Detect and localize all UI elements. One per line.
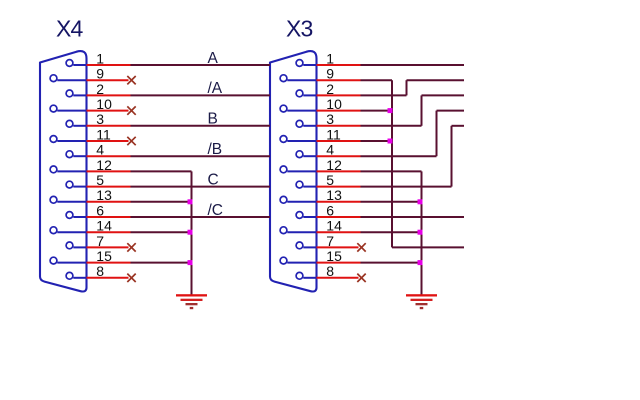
X3 pin 3 red stub wire <box>317 125 361 127</box>
net B: wire from X3 pin 3 to vertical jog <box>361 125 422 127</box>
X3 net 9/10/11: wire from pin 9 to vertical bus <box>361 79 393 81</box>
net /A: wire from X4 pin 2 to X3 <box>131 94 271 96</box>
connector X4 body (DB15 female, 15-pin D-sub outline) <box>40 51 87 291</box>
X3 ground net: wire from pin 12 to vertical bus <box>361 170 422 172</box>
svg-text:3: 3 <box>326 111 334 127</box>
X3 net 9/10/11: junction at pin 10 <box>388 108 393 113</box>
X4 pin 8 red stub wire <box>87 277 129 279</box>
X4 pin 7 pad circle <box>66 242 73 249</box>
X4 pin 8 pad circle <box>66 272 73 279</box>
X4 ground net: wire from pin 14 <box>131 231 191 233</box>
X3 pin 4 pin lead wire <box>303 155 316 157</box>
X3 net 9/10/11: vertical bus wire <box>391 80 393 247</box>
X4 pin 4 pad circle <box>66 151 73 158</box>
X4 pin 1 pin lead wire <box>73 64 86 66</box>
X3 pin 3 pin lead wire <box>303 125 316 127</box>
X4 pin 6 pin lead wire <box>73 216 86 218</box>
X3 pin 15 pad circle <box>280 257 287 264</box>
X4 pin 9 pin lead wire <box>57 79 86 81</box>
net B: wire from X4 pin 3 to X3 <box>131 125 271 127</box>
X4 pin 2 red stub wire <box>87 94 131 96</box>
X4 ground net: wire from pin 15 <box>131 262 191 264</box>
X4 pin 12 red stub wire <box>87 170 131 172</box>
X3 pin 13 pad circle <box>280 196 287 203</box>
X4 pin 4 pin lead wire <box>73 155 86 157</box>
X3 ground net: junction at pin 13 <box>418 199 423 204</box>
svg-text:3: 3 <box>96 111 104 127</box>
net /C: wire from X3 pin 6 to sheet exit <box>361 216 465 218</box>
X3 pin 7 pad circle <box>296 242 303 249</box>
X4 pin 7 pin lead wire <box>73 246 86 248</box>
svg-text:C: C <box>208 171 219 188</box>
X3 pin 15 red stub wire <box>317 262 361 264</box>
X3 pin 5 pin lead wire <box>303 186 316 188</box>
X4 pin 15 pad circle <box>50 257 57 264</box>
net C: vertical jog wire <box>451 126 453 187</box>
X3 pin 13 pin lead wire <box>287 201 316 203</box>
X3 net 9/10/11: junction at pin 11 <box>388 139 393 144</box>
X3 pin 10 pin lead wire <box>287 110 316 112</box>
svg-text:X3: X3 <box>286 16 313 42</box>
X3 net 9/10/11: wire to sheet exit <box>392 246 464 248</box>
net B: vertical jog wire <box>421 95 423 125</box>
X4 pin 15 pin lead wire <box>57 262 86 264</box>
X4 ground net: junction at pin 15 <box>188 260 193 265</box>
X3 pin 12 pad circle <box>280 166 287 173</box>
connector X3 body (DB15 female, 15-pin D-sub outline) <box>270 51 317 291</box>
X3 pin 3 pad circle <box>296 120 303 127</box>
svg-text:/A: /A <box>208 80 223 97</box>
X4 pin 10 pad circle <box>50 105 57 112</box>
X4 pin 10 no-connect X mark <box>127 106 135 114</box>
X4 pin 13 pin lead wire <box>57 201 86 203</box>
X4 pin 8 pin lead wire <box>73 277 86 279</box>
X3 pin 12 pin lead wire <box>287 170 316 172</box>
X4 pin 12 pad circle <box>50 166 57 173</box>
net /B: wire to sheet exit <box>437 110 465 112</box>
X3 pin 15 pin lead wire <box>287 262 316 264</box>
X3 pin 6 red stub wire <box>317 216 361 218</box>
X3 pin 2 pad circle <box>296 90 303 97</box>
X4 pin 11 pin lead wire <box>57 140 86 142</box>
X3 pin 14 red stub wire <box>317 231 361 233</box>
svg-text:X4: X4 <box>56 16 84 42</box>
X3 ground net: junction at pin 15 <box>418 260 423 265</box>
X3 pin 8 red stub wire <box>317 277 359 279</box>
X3 pin 1 pad circle <box>296 60 303 67</box>
X4 pin 14 red stub wire <box>87 231 131 233</box>
net /A: wire from X3 pin 2 to vertical jog <box>361 94 407 96</box>
X4 pin 5 pad circle <box>66 181 73 188</box>
svg-text:B: B <box>208 111 218 128</box>
X3 pin 14 pin lead wire <box>287 231 316 233</box>
X3 pin 7 pin lead wire <box>303 246 316 248</box>
X4 pin 13 red stub wire <box>87 201 131 203</box>
X3 pin 2 red stub wire <box>317 94 361 96</box>
X4 pin 14 pad circle <box>50 227 57 234</box>
net /B: vertical jog wire <box>436 111 438 157</box>
X4 pin 1 pad circle <box>66 60 73 67</box>
ground symbol at X4 bus <box>176 294 207 309</box>
X3 pin 5 pad circle <box>296 181 303 188</box>
X4 pin 9 no-connect X mark <box>127 76 135 84</box>
X3 pin 12 red stub wire <box>317 170 361 172</box>
X4 pin 4 red stub wire <box>87 155 131 157</box>
X4 pin 11 no-connect X mark <box>127 137 135 145</box>
X3 pin 1 pin lead wire <box>303 64 316 66</box>
X4 pin 10 pin lead wire <box>57 110 86 112</box>
X3 pin 9 red stub wire <box>317 79 361 81</box>
X4 pin 2 pad circle <box>66 90 73 97</box>
X4 pin 8 no-connect X mark <box>127 274 135 282</box>
X4 pin 9 pad circle <box>50 75 57 82</box>
X3 pin 1 red stub wire <box>317 64 361 66</box>
net A: wire from X3 pin 1 to sheet exit <box>361 64 465 66</box>
net B: wire to sheet exit <box>422 94 465 96</box>
X4 ground net: junction at pin 13 <box>188 199 193 204</box>
X4 pin 2 pin lead wire <box>73 94 86 96</box>
X3 pin 10 pad circle <box>280 105 287 112</box>
X4 pin 3 red stub wire <box>87 125 131 127</box>
X3 pin 10 red stub wire <box>317 110 361 112</box>
X4 pin 12 pin lead wire <box>57 170 86 172</box>
X4 pin 5 pin lead wire <box>73 186 86 188</box>
net C: wire to sheet exit <box>452 125 465 127</box>
X4 ground net: junction at pin 14 <box>188 230 193 235</box>
X3 pin 6 pin lead wire <box>303 216 316 218</box>
X3 ground net: junction at pin 14 <box>418 230 423 235</box>
svg-text:/C: /C <box>208 202 224 219</box>
X3 pin 9 pad circle <box>280 75 287 82</box>
net /A: wire to sheet exit <box>407 79 465 81</box>
X4 ground net: wire from pin 12 to vertical bus <box>131 170 192 172</box>
X3 pin 2 pin lead wire <box>303 94 316 96</box>
X3 pin 13 red stub wire <box>317 201 361 203</box>
X3 pin 9 pin lead wire <box>287 79 316 81</box>
X3 pin 11 pad circle <box>280 136 287 143</box>
X4 pin 11 red stub wire <box>87 140 129 142</box>
X4 pin 15 red stub wire <box>87 262 131 264</box>
X3 net 9/10/11: wire from pin 11 <box>361 140 392 142</box>
X3 pin 8 pin lead wire <box>303 277 316 279</box>
net /A: vertical jog wire <box>406 80 408 95</box>
X4 pin 7 red stub wire <box>87 246 129 248</box>
X4 pin 1 red stub wire <box>87 64 131 66</box>
X4 pin 7 no-connect X mark <box>127 243 135 251</box>
X4 pin 9 red stub wire <box>87 79 129 81</box>
X3 pin 4 pad circle <box>296 151 303 158</box>
X4 pin 10 red stub wire <box>87 110 129 112</box>
X3 net 9/10/11: wire from pin 10 <box>361 110 392 112</box>
X4 ground net: wire from pin 13 <box>131 201 191 203</box>
net /C: wire from X4 pin 6 to X3 <box>131 216 271 218</box>
X3 ground net: vertical bus wire <box>421 171 423 294</box>
X4 pin 11 pad circle <box>50 136 57 143</box>
X4 pin 14 pin lead wire <box>57 231 86 233</box>
net A: wire from X4 pin 1 to X3 <box>131 64 271 66</box>
X3 pin 11 red stub wire <box>317 140 361 142</box>
svg-text:/B: /B <box>208 141 223 158</box>
X4 ground net: vertical bus wire <box>191 171 193 294</box>
ground symbol at X3 bus <box>406 294 437 309</box>
X3 pin 14 pad circle <box>280 227 287 234</box>
X4 pin 3 pin lead wire <box>73 125 86 127</box>
X3 pin 7 red stub wire <box>317 246 359 248</box>
X4 pin 6 red stub wire <box>87 216 131 218</box>
net C: wire from X3 pin 5 to vertical jog <box>361 186 452 188</box>
X3 ground net: wire from pin 13 <box>361 201 421 203</box>
X4 pin 13 pad circle <box>50 196 57 203</box>
X3 pin 5 red stub wire <box>317 186 361 188</box>
X3 pin 4 red stub wire <box>317 155 361 157</box>
svg-text:A: A <box>208 50 219 67</box>
X3 pin 8 pad circle <box>296 272 303 279</box>
net /B: wire from X4 pin 4 to X3 <box>131 155 271 157</box>
X3 ground net: wire from pin 14 <box>361 231 421 233</box>
X3 ground net: wire from pin 15 <box>361 262 421 264</box>
X4 pin 6 pad circle <box>66 212 73 219</box>
X4 pin 3 pad circle <box>66 120 73 127</box>
X3 pin 8 no-connect X mark <box>357 274 365 282</box>
net C: wire from X4 pin 5 to X3 <box>131 186 271 188</box>
net /B: wire from X3 pin 4 to vertical jog <box>361 155 437 157</box>
X4 pin 5 red stub wire <box>87 186 131 188</box>
X3 pin 11 pin lead wire <box>287 140 316 142</box>
X3 pin 6 pad circle <box>296 212 303 219</box>
X3 pin 7 no-connect X mark <box>357 243 365 251</box>
